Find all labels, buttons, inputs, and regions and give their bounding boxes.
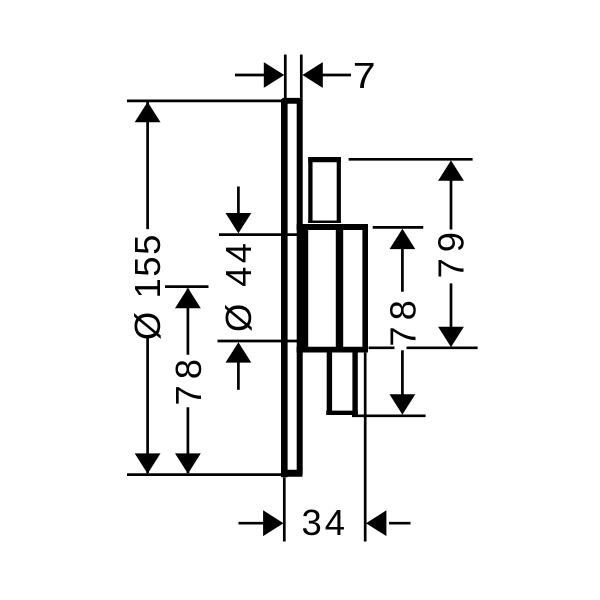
svg-text:Ø 44: Ø 44 <box>218 240 259 333</box>
DIM 78L ext <box>165 285 209 288</box>
svg-text:7: 7 <box>353 56 376 96</box>
DIM 7 extension lines <box>284 55 287 99</box>
PART: lower knob <box>327 350 332 415</box>
DIM 155 ext bottom <box>127 473 284 476</box>
svg-text:Ø 155: Ø 155 <box>127 233 168 340</box>
PART: plate bottom cap <box>282 470 302 477</box>
78L bottom (down) <box>175 453 201 473</box>
34 left (points right) <box>263 510 283 536</box>
DIM 34 ext <box>283 478 286 542</box>
44 top (down) <box>226 213 252 233</box>
78R bottom (down) <box>390 394 416 414</box>
svg-text:78: 78 <box>382 294 423 346</box>
7 right (points left) <box>302 62 322 88</box>
34 right (points left) <box>366 510 386 536</box>
DIM 79 ext <box>349 158 473 161</box>
DIM 78R ext <box>373 226 424 229</box>
44 bottom (up) <box>226 342 252 362</box>
PART: plate top cap <box>282 98 302 104</box>
DIM 44 ext <box>219 233 300 236</box>
155 bottom (down) <box>135 453 161 473</box>
7 left (points right) <box>264 62 284 88</box>
DIM 155 line <box>146 102 149 229</box>
svg-text:78: 78 <box>168 353 209 405</box>
155 top (up) <box>135 102 161 122</box>
PART: block <box>297 224 369 230</box>
DIM 79 line <box>450 181 453 230</box>
DIM 7 lines <box>235 74 265 77</box>
DIM 78R line <box>401 249 404 292</box>
DIM 34 line <box>239 522 265 525</box>
PART: upper knob <box>308 157 312 222</box>
78L top (up) <box>175 288 201 308</box>
DIM 44 line <box>237 187 240 214</box>
DIM 155 ext top (plate top edge collinear) <box>127 100 284 103</box>
svg-text:34: 34 <box>302 502 348 543</box>
svg-text:79: 79 <box>431 226 472 278</box>
79 bottom (down) <box>438 327 464 347</box>
78R top (up) <box>390 229 416 249</box>
79 top (up) <box>438 160 464 180</box>
DIM 78L line <box>187 289 190 355</box>
PART: plate right edge <box>297 99 303 474</box>
PART: plate left edge <box>281 99 288 477</box>
